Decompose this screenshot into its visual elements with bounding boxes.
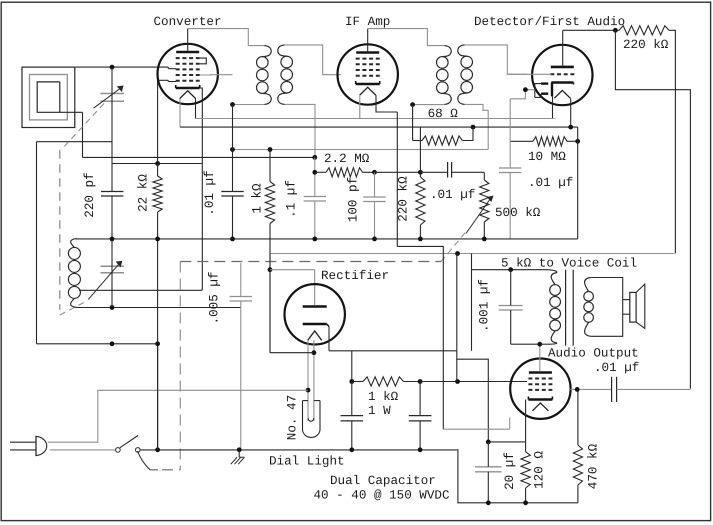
OPT secondary coil bbox=[585, 278, 591, 292]
gang dashed to osc cap bbox=[60, 302, 86, 316]
capacitor .001 uf bbox=[499, 305, 523, 307]
rectifier tube envelope bbox=[285, 284, 345, 344]
wire 2.2M to 220k bbox=[375, 171, 421, 173]
wire screen drop line bbox=[471, 270, 473, 351]
node B- bus junction bbox=[482, 237, 487, 242]
svg-text:5 kΩ to Voice Coil: 5 kΩ to Voice Coil bbox=[501, 257, 637, 271]
node detector heater junction bbox=[568, 125, 573, 130]
resistor 2.2 MOhm bbox=[315, 171, 326, 173]
node grid return junction bbox=[312, 155, 317, 160]
detector diode return wire bbox=[525, 89, 534, 91]
arrow RF tuning cap bbox=[94, 88, 121, 108]
wire B+ rail bbox=[270, 253, 675, 255]
OPT core bbox=[565, 270, 567, 346]
wire grid return line bbox=[83, 156, 315, 158]
oscillator coil L-osc bbox=[71, 238, 77, 247]
arrow osc tuning cap bbox=[88, 263, 119, 299]
svg-text:Converter: Converter bbox=[153, 15, 221, 29]
detector diode plate 2 bbox=[541, 92, 548, 94]
switch mechanical link bbox=[138, 451, 151, 470]
wire IF amp plate top bbox=[368, 29, 445, 46]
IF1 primary bottom wire bbox=[233, 104, 265, 106]
wire cathode to 20uf bbox=[488, 441, 525, 443]
switch lever bbox=[120, 436, 138, 448]
rectifier cathode lead bbox=[328, 327, 330, 351]
IF amp tube envelope bbox=[338, 44, 398, 104]
svg-text:220 kΩ: 220 kΩ bbox=[397, 176, 411, 222]
svg-text:.01 µf: .01 µf bbox=[203, 170, 217, 215]
OPT primary coil bbox=[551, 273, 557, 285]
wire IF2 screen drop bbox=[412, 105, 414, 141]
wire antenna ground link bbox=[37, 343, 158, 345]
svg-text:.1 µf: .1 µf bbox=[285, 180, 299, 218]
node B- bus junction bbox=[312, 237, 317, 242]
OPT secondary loop bbox=[590, 278, 622, 337]
potentiometer wiper arrow bbox=[466, 199, 491, 234]
node .001 top junction bbox=[508, 267, 513, 272]
loop antenna inner turn bbox=[37, 82, 82, 112]
IF amp cathode bbox=[356, 83, 380, 85]
IF1 secondary top wire bbox=[285, 45, 341, 75]
wire B+ screen drop bbox=[456, 254, 458, 351]
wire antenna inner to grid return bbox=[82, 112, 84, 157]
svg-text:220 pf: 220 pf bbox=[83, 172, 97, 217]
switch contact 1 bbox=[116, 448, 121, 453]
converter cathode bbox=[176, 87, 200, 89]
svg-text:1 kΩ: 1 kΩ bbox=[368, 390, 399, 404]
capacitor 220 pf bbox=[101, 191, 123, 193]
node filter cap 2 bottom bbox=[418, 447, 423, 452]
gang dashed vertical left bbox=[179, 262, 181, 471]
node filter cap 1 top bbox=[349, 379, 354, 384]
IF amp heater bbox=[360, 87, 376, 95]
wire osc grid leg bbox=[158, 79, 169, 81]
dial lamp envelope bbox=[303, 401, 321, 438]
svg-text:1 W: 1 W bbox=[368, 404, 391, 418]
capacitor .01 uf detector bbox=[499, 167, 521, 169]
gang dashed diagonal to pot bbox=[441, 231, 467, 262]
loop antenna outer turn bbox=[22, 67, 75, 127]
IF2 primary bottom wire bbox=[413, 104, 445, 106]
node OPT primary bottom bbox=[537, 342, 542, 347]
resistor 1 kOhm 1W bbox=[352, 381, 363, 383]
IF2 secondary top wire bbox=[465, 45, 527, 74]
svg-text:Audio Output: Audio Output bbox=[548, 347, 639, 361]
wire cathode down bbox=[525, 400, 527, 442]
svg-text:.005 µf: .005 µf bbox=[208, 272, 222, 325]
converter grids bbox=[176, 57, 200, 59]
variable capacitor C-tune (osc) bbox=[100, 265, 124, 267]
oscillator coil tap wire bbox=[79, 289, 202, 291]
wire B- to cathode rail bbox=[457, 450, 578, 503]
potentiometer 500 kOhm volume bbox=[483, 172, 485, 180]
resistor 120 Ohm bbox=[525, 442, 527, 452]
rectifier plate bbox=[303, 305, 327, 308]
node link junction B bbox=[155, 341, 160, 346]
capacitor .01 uf coupling bbox=[447, 162, 449, 178]
node screen junction bbox=[455, 379, 460, 384]
node filter cap 2 top bbox=[418, 379, 423, 384]
resistor 10 MOhm bbox=[510, 140, 533, 142]
wire heater to lamp right bbox=[313, 340, 315, 421]
capacitor 40 uf filter 1 bbox=[341, 415, 364, 417]
node AC heater junction bbox=[306, 388, 311, 393]
node 2.2M left junction bbox=[312, 170, 317, 175]
capacitor .01 uf IF bypass bbox=[221, 191, 243, 193]
resistor 1 kOhm screen bbox=[269, 150, 271, 182]
node plate/220k junction bbox=[613, 28, 618, 33]
detector grid bbox=[550, 73, 574, 75]
wire grid line bbox=[570, 388, 611, 390]
IF1 primary coil bbox=[262, 46, 271, 57]
wire AVC return bus bbox=[180, 126, 578, 128]
wire antenna inner lead down bbox=[36, 142, 38, 344]
svg-text:.001 µf: .001 µf bbox=[478, 279, 492, 332]
converter tube envelope bbox=[158, 44, 218, 104]
wire heater bus bbox=[196, 118, 555, 120]
node rectifier plate junction bbox=[268, 267, 273, 272]
wire rectifier plate feed bbox=[270, 269, 315, 271]
audio output cathode bbox=[528, 398, 552, 400]
wire heater drop IF amp bbox=[396, 112, 398, 246]
detector diode plate 1 bbox=[541, 82, 548, 84]
resistor 470 kOhm bbox=[577, 389, 579, 445]
wire B- return bbox=[140, 449, 457, 451]
svg-text:22 kΩ: 22 kΩ bbox=[137, 174, 151, 212]
node 20uf bottom bbox=[486, 500, 491, 505]
IF1 secondary coil bbox=[278, 45, 287, 56]
wire B+ to OPT bbox=[472, 254, 549, 270]
wire osc coil bottom bbox=[77, 307, 241, 309]
node B- bus junction bbox=[155, 237, 160, 242]
audio output tube envelope bbox=[510, 359, 570, 419]
svg-text:220 kΩ: 220 kΩ bbox=[623, 38, 669, 52]
capacitor 40 uf filter 2 bbox=[409, 415, 432, 417]
node B+ screen junction bbox=[455, 251, 460, 256]
loop antenna middle turn bbox=[30, 75, 68, 120]
capacitor .01 uf audio coupling bbox=[611, 377, 613, 402]
svg-text:500 kΩ: 500 kΩ bbox=[495, 206, 541, 220]
svg-text:68 Ω: 68 Ω bbox=[428, 107, 459, 121]
node B- bus junction bbox=[110, 237, 115, 242]
node AVC 1k junction bbox=[268, 147, 273, 152]
wire AVC line bbox=[233, 149, 489, 151]
capacitor .005 uf bbox=[230, 296, 252, 298]
IF amp grids bbox=[356, 58, 380, 60]
IF2 secondary coil bbox=[458, 45, 467, 56]
wire tuning cap bottom bbox=[37, 141, 113, 143]
gang dashed vertical bbox=[59, 150, 61, 309]
AC neutral wire bbox=[50, 449, 116, 451]
IF2 secondary bottom wire bbox=[465, 104, 489, 149]
svg-text:120 Ω: 120 Ω bbox=[533, 451, 547, 489]
wire screen feed jog bbox=[457, 351, 489, 442]
wire B- right leg bbox=[577, 127, 579, 239]
node filter cap 1 bottom bbox=[349, 447, 354, 452]
wire converter plate top bbox=[188, 29, 265, 46]
node IF2 primary bypass junction bbox=[410, 102, 415, 107]
rectifier cathode bbox=[303, 323, 327, 325]
wire 1k to rectifier plate bbox=[269, 254, 271, 353]
detector grid feed wire bbox=[507, 73, 551, 75]
converter heater bbox=[180, 91, 196, 99]
node 68R right junction bbox=[471, 125, 476, 130]
wire heater chain right bbox=[397, 246, 443, 429]
svg-text:1 kΩ: 1 kΩ bbox=[251, 183, 265, 214]
svg-text:100 pf: 100 pf bbox=[347, 177, 361, 222]
capacitor 20 uf bbox=[475, 466, 501, 468]
converter plate bbox=[176, 51, 199, 54]
node link junction A bbox=[110, 341, 115, 346]
svg-text:Dual Capacitor: Dual Capacitor bbox=[330, 474, 436, 488]
svg-text:20 µf: 20 µf bbox=[503, 452, 517, 490]
node B- bus junction bbox=[230, 237, 235, 242]
node 100pf top junction bbox=[372, 170, 377, 175]
node detector diode junction bbox=[523, 87, 528, 92]
wire 1kW left drop bbox=[351, 351, 353, 382]
node lamp tap junction bbox=[312, 350, 317, 355]
gang dashed link upper bbox=[61, 104, 104, 151]
converter grid right bracket bbox=[200, 58, 207, 64]
svg-text:2.2 MΩ: 2.2 MΩ bbox=[324, 152, 370, 166]
converter screen wire bbox=[200, 74, 233, 76]
AC plug body bbox=[36, 436, 47, 455]
speaker stubs bbox=[623, 299, 630, 301]
wire 220k to B+ drop bbox=[669, 30, 675, 253]
wire .001 bottom to plate bbox=[511, 343, 540, 345]
svg-text:IF Amp: IF Amp bbox=[345, 15, 390, 29]
node 10M right junction bbox=[575, 139, 580, 144]
wire switch riser bbox=[157, 344, 159, 450]
svg-text:Detector/First Audio: Detector/First Audio bbox=[474, 15, 625, 29]
wire 220pf top bbox=[112, 163, 202, 165]
detector cathode bbox=[551, 81, 573, 83]
node B- bus junction bbox=[418, 237, 423, 242]
audio output plate bbox=[529, 371, 552, 374]
node grid/470k junction bbox=[575, 387, 580, 392]
capacitor .1 uf bbox=[304, 196, 326, 198]
svg-text:10 MΩ: 10 MΩ bbox=[528, 150, 566, 164]
chassis ground symbol bbox=[238, 450, 240, 457]
detector heater bbox=[554, 90, 570, 98]
node 22k top junction bbox=[155, 161, 160, 166]
resistor 22 kOhm bbox=[157, 164, 159, 177]
wire detector plate to 220k bbox=[563, 29, 619, 31]
wire B- bus bbox=[76, 238, 578, 240]
rectifier heater bbox=[308, 331, 322, 340]
svg-text:.01 µf: .01 µf bbox=[430, 188, 475, 202]
svg-text:No. 47: No. 47 bbox=[286, 395, 300, 440]
node chassis ground junction bbox=[237, 447, 242, 452]
node AVC left junction bbox=[230, 147, 235, 152]
svg-text:.01 µf: .01 µf bbox=[528, 176, 573, 190]
node cathode/20uf junction bbox=[486, 440, 491, 445]
node IF1 primary bypass junction bbox=[230, 102, 235, 107]
svg-text:470 kΩ: 470 kΩ bbox=[587, 443, 601, 489]
wire rectifier cathode out bbox=[329, 350, 457, 352]
speaker driver bbox=[630, 292, 636, 322]
speaker cone bbox=[636, 284, 645, 328]
IF2 primary coil bbox=[442, 46, 451, 57]
IF amp plate bbox=[356, 51, 379, 54]
node 220k top junction bbox=[418, 170, 423, 175]
resistor 68 Ohm bbox=[413, 140, 422, 142]
svg-text:Rectifier: Rectifier bbox=[321, 269, 389, 283]
wire osc/lamp link bbox=[270, 352, 314, 354]
dial lamp filament bbox=[308, 418, 314, 421]
detector plate bbox=[551, 66, 574, 69]
capacitor 100 pf bbox=[363, 196, 385, 198]
AC plug prongs bbox=[10, 441, 36, 443]
detector cathode lead down bbox=[552, 96, 554, 118]
audio output heater bbox=[532, 403, 548, 411]
audio output grids bbox=[528, 378, 552, 380]
node 120R bottom bbox=[523, 500, 528, 505]
converter cathode lead bbox=[200, 88, 202, 290]
resistor 220 kOhm grid bbox=[419, 127, 421, 177]
node antenna/tuning-cap junction bbox=[110, 65, 115, 70]
wire screen line to audio bbox=[420, 381, 527, 383]
IF amp heater left leg bbox=[359, 95, 361, 118]
IF amp heater right leg bbox=[376, 95, 397, 112]
AC plug hot wire bbox=[48, 390, 308, 442]
detector tube envelope bbox=[532, 45, 592, 105]
converter heater left leg down bbox=[179, 99, 181, 128]
IF1 secondary bottom wire bbox=[285, 104, 315, 157]
resistor 220 kOhm plate load bbox=[619, 26, 669, 35]
detector heater right leg bbox=[570, 98, 572, 127]
node osc cap bottom bbox=[110, 305, 115, 310]
svg-text:Dial Light: Dial Light bbox=[269, 455, 345, 469]
wire heater to lamp left bbox=[307, 340, 309, 421]
gang dashed horizontal bbox=[180, 261, 441, 263]
switch contact 2 bbox=[136, 448, 141, 453]
svg-text:40 - 40 @ 150 WVDC: 40 - 40 @ 150 WVDC bbox=[313, 489, 449, 503]
svg-text:.01 µf: .01 µf bbox=[594, 361, 639, 375]
wire detector out right margin bbox=[615, 30, 690, 388]
node switch/B- junction bbox=[155, 447, 160, 452]
node B- bus junction bbox=[372, 237, 377, 242]
variable capacitor C-tune (RF) bbox=[100, 93, 124, 95]
converter heater right leg down bbox=[195, 99, 197, 119]
wire antenna top to converter grid bbox=[75, 66, 169, 68]
